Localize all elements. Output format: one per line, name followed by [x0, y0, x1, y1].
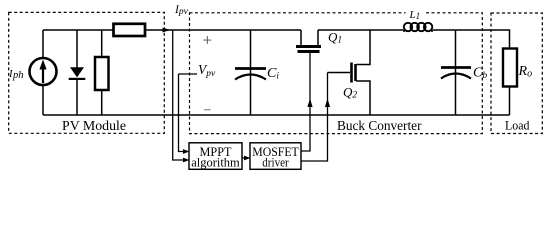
svg-text:+: + — [203, 31, 213, 50]
svg-text:driver: driver — [262, 155, 289, 169]
svg-text:Load: Load — [505, 119, 530, 133]
svg-text:PV Module: PV Module — [62, 118, 126, 133]
svg-text:algorithm: algorithm — [191, 155, 240, 169]
svg-text:L1: L1 — [409, 9, 421, 21]
svg-text:Iph: Iph — [8, 69, 24, 81]
svg-text:Buck Converter: Buck Converter — [337, 118, 422, 133]
svg-text:−: − — [204, 104, 212, 119]
